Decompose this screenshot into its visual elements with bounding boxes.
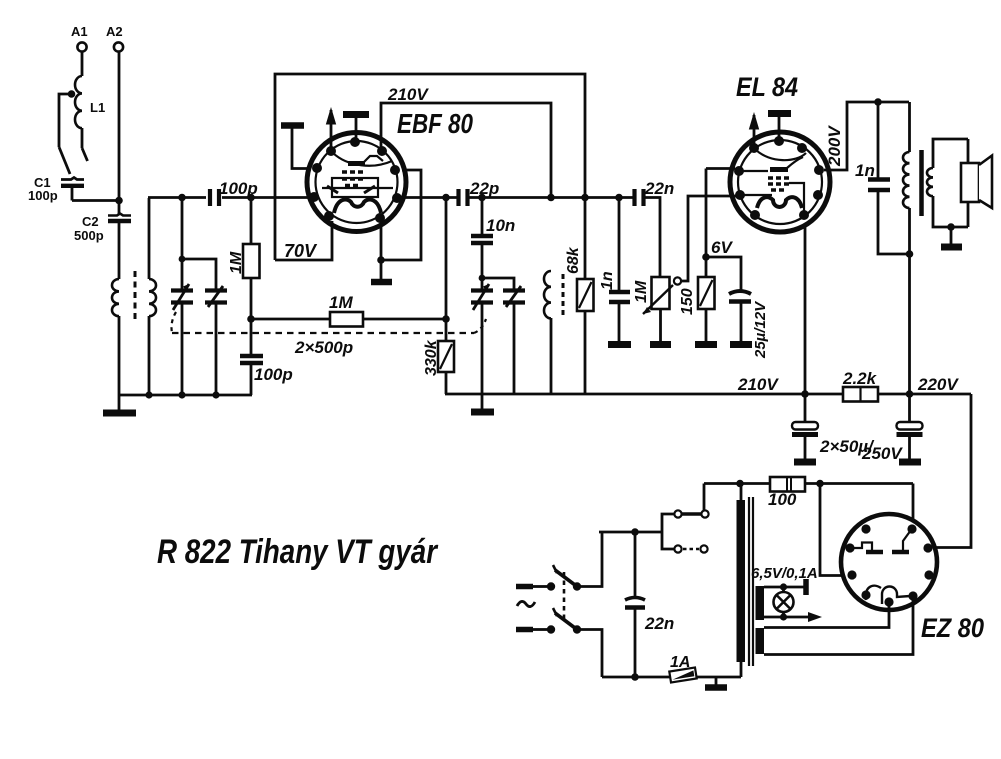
svg-text:330k: 330k [423, 339, 440, 376]
svg-text:500p: 500p [74, 228, 104, 243]
trimmer capacitor 2 [205, 286, 227, 395]
svg-text:22n: 22n [644, 614, 674, 633]
ground at EBF80 shield [281, 126, 310, 169]
ground 150 [695, 341, 717, 348]
ground speaker [941, 223, 962, 247]
ground EBF80 cathode [371, 260, 392, 282]
svg-text:6V: 6V [711, 238, 733, 257]
svg-text:EL 84: EL 84 [736, 72, 798, 102]
ground 50u A [794, 459, 816, 466]
wire anode feed left [820, 484, 843, 576]
capacitor 22n coupling [635, 189, 661, 277]
voltage selector plugs [674, 510, 708, 552]
svg-text:200V: 200V [825, 125, 844, 167]
antenna transformer primary winding [112, 279, 119, 316]
wire anode feed top [912, 484, 915, 522]
ground left [103, 395, 136, 413]
power transformer primary winding [737, 484, 746, 678]
output transformer primary [903, 102, 910, 394]
tap junction on L1 [59, 90, 75, 147]
EBF80 internal suppressor ticks [327, 186, 375, 193]
wire EZ80 heater return [764, 599, 913, 655]
capacitor 22n mains [625, 598, 645, 678]
node 10n branch [478, 194, 486, 236]
node 1M top [247, 194, 309, 202]
tube EL84 envelope [730, 132, 830, 232]
node tuning branch [178, 194, 186, 290]
EL84 heater arrow [749, 112, 759, 148]
svg-text:210V: 210V [737, 375, 779, 394]
svg-text:22n: 22n [644, 179, 674, 198]
wire selector feed [703, 484, 706, 511]
capacitor 100p coupling [210, 189, 251, 206]
svg-text:A2: A2 [106, 24, 123, 39]
mains terminal lower [516, 625, 555, 633]
svg-text:1A: 1A [670, 654, 690, 671]
trimmer capacitor 4 [503, 286, 525, 394]
EZ80 heater curve [866, 586, 910, 604]
fuse 1A [669, 668, 696, 683]
node primary bottom [906, 250, 914, 258]
capacitor C2 [108, 214, 131, 280]
EBF80 internal screen box [322, 178, 393, 197]
EL84 internal grid bar [770, 157, 803, 170]
wire EL84 cathode [706, 169, 735, 278]
lamp 6.5V/0.1A [774, 587, 794, 618]
svg-text:150: 150 [679, 288, 696, 315]
wire EL84 screen to rail [804, 225, 807, 394]
svg-text:A1: A1 [71, 24, 88, 39]
ground mains [705, 677, 727, 688]
wire lamp bottom with arrow [764, 612, 822, 622]
node osc section tee [479, 275, 514, 290]
wire selector bracket [599, 514, 674, 549]
capacitor 100p agc [240, 319, 263, 395]
antenna transformer secondary winding [149, 198, 156, 395]
power transformer core [749, 497, 753, 666]
variable capacitor section 3 [471, 284, 493, 394]
EBF80 heater arrow [326, 107, 336, 151]
wire 220V to EZ80 cathode [935, 394, 971, 548]
node 1n branch [615, 194, 623, 291]
svg-text:210V: 210V [387, 85, 429, 104]
potentiometer 1M volume [643, 277, 681, 341]
wire primary to ground rail [118, 316, 121, 395]
svg-text:1M: 1M [228, 251, 245, 274]
label C2 500p [74, 214, 104, 243]
node tee to second trimmer [179, 256, 216, 290]
EBF80 cathode arch [334, 200, 381, 213]
wire EBF80 cathode to ground [377, 170, 421, 264]
EL84 cathode arch [757, 197, 802, 208]
svg-text:1M: 1M [329, 293, 353, 312]
capacitor 22p [459, 189, 635, 206]
mains terminal upper [516, 582, 555, 590]
resistor 2.2k [843, 387, 878, 402]
svg-text:250V: 250V [861, 444, 903, 463]
svg-text:2×500p: 2×500p [294, 338, 353, 357]
wire EZ80 heater to winding [764, 604, 889, 628]
output transformer secondary [927, 139, 968, 227]
node 22n mains top [631, 528, 639, 599]
IF transformer coil [544, 271, 551, 394]
svg-text:1n: 1n [599, 271, 616, 290]
node detector [442, 194, 450, 202]
node 68k top [581, 194, 589, 202]
output transformer core [919, 150, 924, 216]
capacitor 1n tone [868, 180, 910, 255]
terminal A1 [77, 42, 86, 76]
ground 25u [730, 341, 752, 348]
svg-text:R 822 Tihany VT gyár: R 822 Tihany VT gyár [157, 533, 438, 571]
EZ80 pins [845, 524, 933, 606]
ground pot [650, 341, 671, 348]
wire 100 ohm row [704, 482, 770, 485]
svg-text:100p: 100p [254, 365, 293, 384]
switch pole upper [553, 532, 602, 591]
EL84 internal leads [739, 171, 804, 215]
variable capacitor section 1 [171, 284, 193, 395]
power transformer lamp winding [756, 586, 765, 620]
label 2x50u/250V [819, 437, 903, 463]
switch gang dashed [563, 572, 566, 620]
svg-text:100p: 100p [28, 188, 58, 203]
wire mains bottom [602, 676, 741, 679]
wire anode loop 210V [381, 103, 551, 198]
ground mid [471, 394, 494, 412]
node 100 ohm right [805, 480, 913, 488]
wire ground rail left [119, 394, 252, 397]
capacitor 1n det [609, 292, 630, 341]
svg-text:220V: 220V [917, 375, 959, 394]
power transformer heater winding [756, 628, 765, 654]
speaker [961, 156, 992, 209]
label C1 100p [28, 175, 58, 203]
svg-text:1n: 1n [855, 161, 875, 180]
resistor 100 [770, 477, 805, 492]
switch pole lower [553, 608, 602, 677]
inductor L1 [75, 76, 88, 161]
op tube EBF80 envelope [307, 133, 406, 232]
EZ80 anode right [892, 530, 911, 552]
capacitor 50u B [897, 394, 923, 459]
wire plate out [401, 196, 458, 199]
dashed gang link [172, 312, 487, 333]
svg-text:L1: L1 [90, 100, 105, 115]
svg-text:10n: 10n [486, 216, 515, 235]
resistor 150 [698, 277, 715, 341]
IF coil core dashed [562, 274, 565, 317]
node 100 ohm left [736, 480, 744, 488]
svg-text:6,5V/0,1A: 6,5V/0,1A [751, 565, 818, 582]
EBF80 top cap symbol [343, 115, 369, 143]
EZ80 anode left [850, 543, 883, 553]
EBF80 internal diode bar [348, 156, 383, 164]
capacitor 10n [471, 236, 493, 290]
node 1n top [874, 98, 882, 179]
svg-text:68k: 68k [565, 246, 582, 274]
ground 50u B [899, 459, 921, 466]
resistor 68k [577, 198, 594, 395]
wire EL84 plate to 200V [824, 102, 909, 170]
EBF80 pins [309, 137, 402, 223]
svg-text:2.2k: 2.2k [842, 369, 878, 388]
capacitor 50u A [792, 394, 818, 459]
svg-text:25µ/12V: 25µ/12V [752, 300, 769, 359]
node A2/C1 junction [115, 197, 123, 205]
EL84 internal grid arc [756, 150, 806, 160]
node 6V [702, 253, 710, 261]
capacitor C1 [61, 178, 119, 201]
wire wiper to EL84 grid [681, 196, 736, 281]
ac symbol [517, 601, 535, 606]
svg-text:100: 100 [768, 490, 797, 509]
node rail dots [145, 391, 219, 398]
wire grid bus [148, 196, 206, 199]
wire detector loop outer [275, 74, 585, 260]
EL84 top cap symbol [768, 114, 791, 142]
svg-text:EBF 80: EBF 80 [397, 108, 473, 139]
node 22n mains bottom [631, 673, 639, 681]
EL84 internal dashes [768, 178, 789, 190]
transformer core (dashed) [134, 271, 137, 319]
EBF80 internal grid dashes [342, 172, 363, 186]
resistor 330k [438, 198, 454, 395]
wire 70V box [275, 221, 332, 260]
wire lamp top [764, 579, 806, 595]
svg-text:1M: 1M [633, 280, 650, 303]
svg-text:70V: 70V [284, 241, 318, 261]
node 220V [906, 390, 914, 398]
band switch arm [59, 147, 70, 174]
tube EZ80 envelope [841, 514, 937, 610]
EL84 pins [734, 136, 824, 220]
node screen rail [801, 390, 809, 398]
wire B+ rail right [445, 393, 971, 396]
svg-text:EZ 80: EZ 80 [921, 613, 984, 643]
resistor 1M horizontal [251, 312, 446, 327]
terminal A2 [114, 42, 123, 214]
capacitor 25u/12V [706, 257, 751, 341]
EBF80 internal grid arc [333, 153, 392, 166]
svg-text:C2: C2 [82, 214, 99, 229]
node AVC junction [247, 315, 255, 323]
node IF coil top [547, 194, 555, 202]
ground 1n [608, 341, 631, 348]
resistor 1M vertical [243, 198, 260, 320]
